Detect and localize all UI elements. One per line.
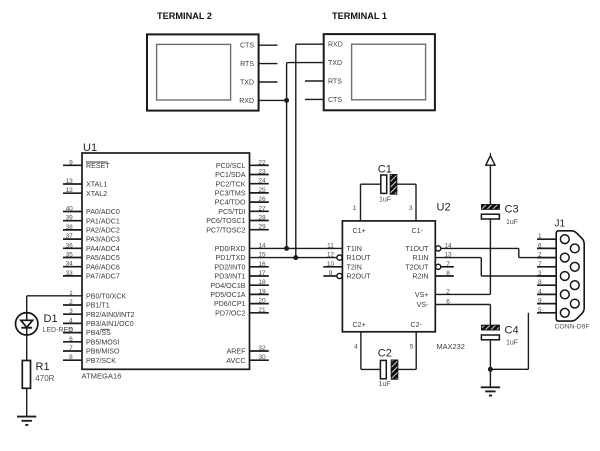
LED D1 refdes (44, 313, 58, 325)
junction ground node (488, 367, 493, 372)
svg-text:470R: 470R (35, 374, 54, 383)
U2 pin 6 VS- (417, 299, 451, 310)
U2 pin 2 VS+ (415, 288, 450, 299)
svg-text:PC6/TOSC1: PC6/TOSC1 (206, 217, 245, 225)
U1 pin 36 PA4/ADC4 (63, 242, 120, 253)
J1 pin 2 (537, 252, 569, 262)
capacitor C1 (381, 174, 397, 194)
U1 pin 30 AVCC (226, 354, 268, 365)
terminal TERMINAL 2 body (147, 34, 259, 110)
IC U2 box (342, 221, 435, 332)
svg-text:35: 35 (66, 252, 74, 259)
ground for R1 (17, 417, 36, 425)
svg-text:3: 3 (538, 270, 542, 277)
svg-text:28: 28 (258, 215, 266, 222)
J1 pin 1 (537, 233, 569, 243)
U1 pin 2 PB1/T1 (63, 299, 110, 310)
svg-text:22: 22 (258, 159, 266, 166)
U1 pin 39 PA1/ADC1 (63, 215, 120, 226)
svg-text:4: 4 (354, 344, 358, 351)
svg-text:36: 36 (66, 242, 74, 249)
U1 pin 29 PC7/TOSC2 (206, 224, 269, 235)
IC U1 box (82, 153, 250, 369)
svg-text:PD0/RXD: PD0/RXD (215, 245, 246, 253)
terminal TERMINAL 2 pin RTS (259, 63, 278, 65)
U1 pin 7 PB6/MISO (63, 345, 120, 356)
svg-text:6: 6 (538, 242, 542, 249)
U1 pin 21 PD7/OC2 (215, 307, 269, 318)
resistor R1 value 470R (35, 374, 54, 383)
connector J1 shell (556, 231, 584, 321)
svg-text:PA2/ADC2: PA2/ADC2 (86, 227, 120, 235)
U1 pin 38 PA2/ADC2 (63, 224, 120, 235)
wire R1IN to J1 pin 3 (435, 258, 556, 276)
svg-text:VS-: VS- (417, 301, 429, 309)
LED D1 (16, 313, 38, 335)
svg-text:R1OUT: R1OUT (347, 254, 372, 262)
U1 pin 18 PD4/OC1B (210, 279, 268, 290)
svg-text:PD7/OC2: PD7/OC2 (215, 309, 245, 317)
svg-text:PC3/TMS: PC3/TMS (215, 190, 246, 198)
svg-text:XTAL1: XTAL1 (86, 181, 107, 189)
svg-text:18: 18 (258, 279, 266, 286)
U1 pin 13 XTAL1 (63, 178, 107, 189)
U2 pin 8 R2IN (412, 270, 453, 281)
terminal TERMINAL 1 pin CTS (305, 98, 324, 100)
svg-text:TXD: TXD (328, 60, 342, 67)
terminal TERMINAL 1 body (324, 34, 435, 110)
svg-text:11: 11 (327, 242, 334, 249)
svg-text:CTS: CTS (240, 43, 254, 50)
capacitor C4 (481, 325, 499, 340)
U2 pin 4 C2+ lead (354, 332, 380, 370)
wire T1OUT to J1 pin 2 (441, 248, 556, 257)
svg-text:8: 8 (69, 354, 73, 361)
U1 pin 22 PC0/SCL (216, 159, 269, 170)
U2 pin 12 R1OUT (327, 252, 371, 263)
svg-text:VS+: VS+ (415, 291, 429, 299)
capacitor C3 (481, 205, 499, 220)
svg-text:R1IN: R1IN (412, 254, 428, 262)
svg-text:9: 9 (538, 298, 542, 305)
svg-text:C2-: C2- (411, 321, 423, 329)
svg-text:25: 25 (258, 187, 266, 194)
U1 pin 16 PD2/INT0 (214, 261, 268, 272)
svg-text:PA4/ADC4: PA4/ADC4 (86, 245, 120, 253)
capacitor C4 refdes (505, 325, 519, 337)
svg-text:PB5/MOSI: PB5/MOSI (86, 338, 120, 346)
svg-text:3: 3 (69, 308, 73, 315)
J1 pin 6 (537, 242, 579, 252)
svg-text:RXD: RXD (328, 42, 343, 49)
svg-text:T1OUT: T1OUT (405, 245, 429, 253)
svg-text:PC7/TOSC2: PC7/TOSC2 (206, 226, 245, 234)
U2 pin 11 T1IN (327, 242, 362, 253)
svg-text:32: 32 (258, 345, 266, 352)
svg-text:24: 24 (258, 178, 266, 185)
svg-text:ATMEGA16: ATMEGA16 (82, 371, 122, 380)
U1 pin 19 PD5/OC1A (210, 288, 268, 299)
wire C4 to ground (489, 340, 491, 387)
svg-text:6: 6 (69, 336, 73, 343)
wire PB0 to LED (27, 296, 82, 312)
wire LED to R1 (26, 335, 28, 361)
U1 pin 4 PB3/AIN1/OC0 (63, 317, 134, 328)
svg-text:PA5/ADC5: PA5/ADC5 (86, 254, 120, 262)
U1 pin 12 XTAL2 (63, 187, 107, 198)
svg-text:PC1/SDA: PC1/SDA (215, 171, 246, 179)
svg-text:5: 5 (538, 307, 542, 314)
svg-text:26: 26 (258, 196, 266, 203)
wire PD1 to R1OUT (250, 257, 338, 259)
svg-text:1uF: 1uF (506, 340, 518, 347)
svg-text:2: 2 (538, 252, 542, 259)
IC U1 value ATMEGA16 (82, 371, 122, 380)
svg-text:1: 1 (538, 233, 542, 240)
svg-text:PD2/INT0: PD2/INT0 (214, 263, 245, 271)
svg-text:PA1/ADC1: PA1/ADC1 (86, 217, 120, 225)
U1 pin 5 PB4/SS (63, 327, 111, 338)
svg-text:PA3/ADC3: PA3/ADC3 (86, 236, 120, 244)
svg-text:RESET: RESET (86, 162, 110, 170)
svg-text:39: 39 (66, 215, 74, 222)
U2 label C2- (411, 321, 423, 329)
svg-text:TXD: TXD (240, 79, 254, 86)
svg-text:LED-RED: LED-RED (43, 327, 74, 334)
svg-text:PD5/OC1A: PD5/OC1A (210, 291, 245, 299)
svg-text:PB1/T1: PB1/T1 (86, 302, 110, 310)
svg-text:CONN-D9F: CONN-D9F (555, 323, 590, 330)
capacitor C2 value 1uF (379, 381, 391, 388)
wire TERMINAL 1 TXD (287, 62, 324, 64)
resistor R1 refdes (36, 361, 50, 373)
svg-text:T2IN: T2IN (347, 263, 362, 271)
svg-text:XTAL2: XTAL2 (86, 190, 107, 198)
svg-text:33: 33 (66, 270, 74, 277)
svg-text:PB4/SS: PB4/SS (86, 329, 111, 337)
svg-text:23: 23 (258, 169, 266, 176)
wire R1 to ground (26, 388, 28, 416)
svg-text:9: 9 (329, 270, 333, 277)
J1 pin 5 (537, 307, 569, 317)
svg-text:PB2/AIN0/INT2: PB2/AIN0/INT2 (86, 311, 135, 319)
LED D1 value LED-RED (43, 327, 74, 334)
svg-text:PC0/SCL: PC0/SCL (216, 162, 246, 170)
svg-text:2: 2 (69, 299, 73, 306)
wire vertical net RXD1 to PD1 (295, 44, 297, 257)
svg-text:PA6/ADC6: PA6/ADC6 (86, 263, 120, 271)
svg-text:C2+: C2+ (353, 321, 366, 329)
svg-text:R1: R1 (36, 361, 50, 373)
svg-text:TERMINAL 2: TERMINAL 2 (157, 11, 212, 21)
svg-text:PD1/TXD: PD1/TXD (216, 254, 246, 262)
svg-text:13: 13 (66, 178, 74, 185)
svg-text:38: 38 (66, 224, 74, 231)
U1 pin 32 AREF (227, 345, 269, 356)
wire J1 pin 5 to ground net (490, 313, 528, 370)
wire TERMINAL2 RXD to node (259, 99, 287, 101)
svg-text:U2: U2 (437, 202, 451, 214)
svg-text:PD3/INT1: PD3/INT1 (214, 273, 245, 281)
capacitor C1 value 1uF (379, 197, 391, 204)
svg-text:7: 7 (69, 345, 73, 352)
U2 pin 5 C2- lead (397, 332, 416, 370)
U2 pin 13 R1IN (412, 252, 452, 263)
svg-text:16: 16 (258, 261, 266, 268)
IC U2 value MAX232 (437, 342, 465, 351)
capacitor C2 refdes (378, 348, 392, 360)
svg-text:5: 5 (410, 344, 414, 351)
svg-text:U1: U1 (83, 142, 97, 154)
J1 pin 8 (537, 279, 579, 289)
terminal TERMINAL 2 title (157, 11, 212, 21)
svg-text:27: 27 (258, 205, 266, 212)
svg-text:1uF: 1uF (379, 381, 391, 388)
svg-text:8: 8 (538, 279, 542, 286)
power VCC arrow (486, 153, 495, 205)
svg-text:10: 10 (327, 261, 335, 268)
svg-text:PC4/TDO: PC4/TDO (215, 199, 246, 207)
wire C3 to VS+ (435, 219, 490, 294)
U2 pin 1 C1+ lead (353, 184, 381, 221)
junction PD1 node (293, 255, 298, 260)
svg-text:C4: C4 (505, 325, 519, 337)
U2 label C1- (412, 227, 424, 235)
svg-text:12: 12 (327, 252, 335, 259)
svg-text:1uF: 1uF (379, 197, 391, 204)
svg-text:CTS: CTS (328, 97, 342, 104)
svg-text:PB3/AIN1/OC0: PB3/AIN1/OC0 (86, 320, 134, 328)
svg-text:7: 7 (538, 261, 542, 268)
U1 pin 35 PA5/ADC5 (63, 252, 120, 263)
U1 pin 15 PD1/TXD (216, 252, 266, 263)
svg-text:PB7/SCK: PB7/SCK (86, 357, 116, 365)
junction PD0 node (284, 246, 289, 251)
svg-text:PD4/OC1B: PD4/OC1B (210, 282, 245, 290)
svg-text:J1: J1 (555, 219, 566, 230)
svg-text:17: 17 (258, 270, 266, 277)
svg-text:C1: C1 (378, 163, 392, 175)
capacitor C2 (380, 360, 397, 379)
wire PD0 to T1IN (250, 247, 343, 249)
svg-text:21: 21 (258, 307, 266, 314)
U1 pin 27 PC5/TDI (218, 205, 269, 216)
svg-text:37: 37 (66, 233, 74, 240)
U1 pin 33 PA7/ADC7 (63, 270, 120, 281)
U2 pin 9 R2OUT (323, 270, 371, 281)
svg-text:MAX232: MAX232 (437, 342, 465, 351)
J1 pin 4 (537, 288, 569, 298)
U2 pin 10 T2IN (323, 261, 362, 272)
U1 pin 9 RESET (63, 159, 110, 170)
J1 pin 7 (537, 261, 579, 271)
junction RXD2-node (284, 98, 289, 103)
U1 pin 40 PA0/ADC0 (63, 206, 120, 217)
svg-text:D1: D1 (44, 313, 58, 325)
svg-text:RTS: RTS (328, 78, 342, 85)
svg-text:4: 4 (69, 317, 73, 324)
capacitor C3 value 1uF (506, 219, 518, 226)
svg-text:TERMINAL 1: TERMINAL 1 (332, 11, 387, 21)
terminal TERMINAL 1 title (332, 11, 387, 21)
U1 pin 1 PB0/T0/XCK (69, 290, 126, 301)
IC U2 refdes (437, 202, 451, 214)
U2 label C2+ (353, 321, 366, 329)
svg-text:3: 3 (409, 205, 413, 212)
U1 pin 23 PC1/SDA (215, 169, 269, 180)
svg-text:T1IN: T1IN (347, 245, 362, 253)
connector J1 refdes (555, 219, 566, 230)
IC U1 refdes (83, 142, 97, 154)
U1 pin 37 PA3/ADC3 (63, 233, 120, 244)
wire VS- to C4 (435, 305, 490, 326)
svg-text:PC5/TDI: PC5/TDI (218, 208, 245, 216)
U1 pin 6 PB5/MOSI (63, 336, 120, 347)
svg-text:12: 12 (66, 187, 74, 194)
svg-text:1: 1 (353, 205, 357, 212)
svg-text:AVCC: AVCC (226, 357, 245, 365)
svg-text:PB0/T0/XCK: PB0/T0/XCK (86, 292, 126, 300)
svg-text:PA0/ADC0: PA0/ADC0 (86, 208, 120, 216)
wire vertical net TXD1/RXD2 to PD0 (286, 63, 288, 249)
svg-text:40: 40 (66, 206, 74, 213)
U2 label C1+ (353, 227, 366, 235)
svg-text:T2OUT: T2OUT (405, 263, 429, 271)
svg-text:29: 29 (258, 224, 266, 231)
wire TERMINAL 1 RXD (296, 43, 324, 45)
svg-text:7: 7 (446, 261, 450, 268)
svg-text:PC2/TCK: PC2/TCK (216, 180, 246, 188)
ground for C4 (481, 387, 500, 395)
U1 pin 25 PC3/TMS (215, 187, 269, 198)
U2 pin 7 T2OUT (405, 261, 454, 272)
J1 pin 3 (537, 270, 569, 280)
svg-text:C1-: C1- (412, 227, 424, 235)
svg-text:19: 19 (258, 288, 266, 295)
svg-text:PD6/ICP1: PD6/ICP1 (214, 300, 246, 308)
svg-text:9: 9 (69, 159, 73, 166)
capacitor C3 refdes (505, 204, 519, 216)
svg-text:R2IN: R2IN (412, 273, 428, 281)
U1 pin 17 PD3/INT1 (214, 270, 268, 281)
svg-text:34: 34 (66, 261, 74, 268)
terminal TERMINAL 2 pin TXD (259, 81, 278, 83)
svg-text:1uF: 1uF (506, 219, 518, 226)
capacitor C1 refdes (378, 163, 392, 175)
U1 pin 20 PD6/ICP1 (214, 298, 269, 309)
svg-text:20: 20 (258, 298, 266, 305)
U1 pin 26 PC4/TDO (215, 196, 269, 207)
capacitor C4 value 1uF (506, 340, 518, 347)
svg-text:C1+: C1+ (353, 227, 366, 235)
svg-text:30: 30 (258, 354, 266, 361)
svg-text:PB6/MISO: PB6/MISO (86, 348, 120, 356)
svg-text:4: 4 (538, 288, 542, 295)
U1 pin 3 PB2/AIN0/INT2 (63, 308, 135, 319)
U2 pin 14 T1OUT (405, 242, 452, 253)
svg-text:RXD: RXD (239, 98, 254, 105)
svg-text:R2OUT: R2OUT (347, 273, 372, 281)
connector J1 value CONN-D9F (555, 323, 590, 330)
terminal TERMINAL 2 pin CTS (259, 44, 278, 46)
svg-text:AREF: AREF (227, 348, 247, 356)
U1 pin 8 PB7/SCK (63, 354, 116, 365)
terminal TERMINAL 1 pin RTS (305, 80, 324, 82)
svg-text:8: 8 (446, 270, 450, 277)
resistor R1 (22, 361, 30, 389)
svg-text:C2: C2 (378, 348, 392, 360)
U1 pin 14 PD0/RXD (215, 242, 266, 253)
U1 pin 24 PC2/TCK (216, 178, 269, 189)
svg-text:RTS: RTS (240, 61, 254, 68)
svg-text:C3: C3 (505, 204, 519, 216)
svg-text:PA7/ADC7: PA7/ADC7 (86, 273, 120, 281)
U2 pin 3 C1- lead (397, 184, 416, 221)
U1 pin 34 PA6/ADC6 (63, 261, 120, 272)
J1 pin 9 (537, 298, 579, 308)
U1 pin 28 PC6/TOSC1 (206, 215, 269, 226)
